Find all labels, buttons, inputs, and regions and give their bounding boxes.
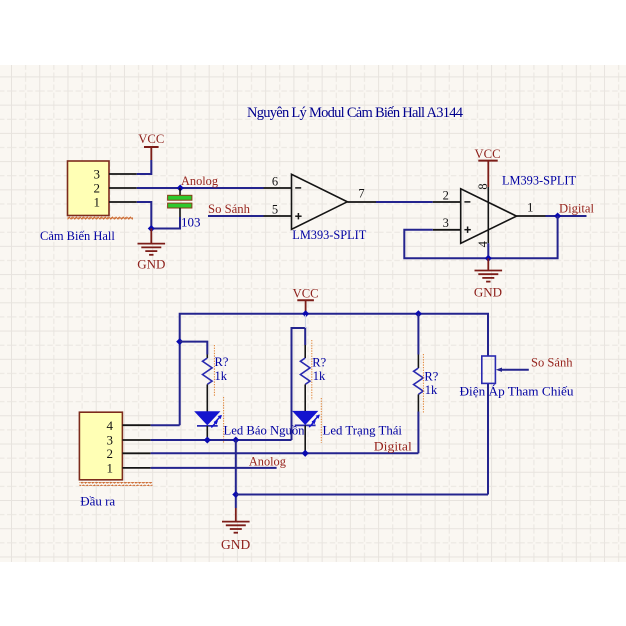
ground symbol GND3 [221,508,250,552]
wire U1B pin4 down to feedback line [487,243,489,258]
U1A pin number 5 [272,202,278,216]
R2 error marker [311,340,313,400]
wire GND drop vertical [235,440,237,508]
P1 pin number 1 [94,195,101,210]
U1B pin number 3 [443,216,449,230]
wire pin4 to rail vertical [151,424,180,426]
junction at GND node [148,225,155,232]
U1A pin 5 stub [264,215,292,217]
VCC power port above U1B [475,146,501,187]
U1A pin 6 stub [264,187,292,189]
P2 error squiggle [79,482,152,486]
U1B pin 4 label (rotated) [476,240,490,247]
P2 pin 2 stub [122,452,150,454]
wire n-bridge from GND line up to R2 [292,328,306,440]
U1A label LM393-SPLIT [292,227,366,242]
resistor R3 [414,355,424,412]
svg-text:2: 2 [107,446,114,461]
VCC rail wire [180,314,488,425]
capacitor C1 plates [168,195,192,208]
resistor R3 top wire [417,314,419,355]
svg-text:R?: R? [424,369,438,383]
R1 value 1k [215,369,228,383]
capacitor C1 value 103 [181,215,201,230]
D1 error marker [223,397,225,443]
svg-text:Led Trạng Thái: Led Trạng Thái [323,423,403,438]
potentiometer wire from rail [487,383,489,494]
svg-text:3: 3 [94,167,101,182]
P2 pin number 1 [107,460,114,475]
connector P2 Dau ra body [79,412,122,480]
U1A pin number 7 [358,186,364,200]
R3 designator R? [424,369,438,383]
svg-text:7: 7 [358,186,364,200]
U1B pin 3 stub [433,229,461,231]
U1B plus sign [464,227,470,233]
svg-text:1: 1 [94,195,101,210]
D2 error marker [320,398,322,443]
svg-text:Cảm Biến Hall: Cảm Biến Hall [40,228,115,243]
schematic sheet background [0,65,626,562]
svg-text:1: 1 [527,200,533,214]
P2 pin number 2 [107,446,114,461]
svg-text:6: 6 [272,174,278,188]
U1B pin 8 label (rotated) [476,183,490,189]
P2 pin 4 stub [122,424,150,426]
R3 bottom wire to Digital line [417,412,419,454]
RV1 label Dien Ap Tham Chieu [460,384,574,399]
U1A pin number 6 [272,174,278,188]
junction GND drop [232,436,239,443]
svg-text:LM393-SPLIT: LM393-SPLIT [292,227,366,242]
svg-text:GND: GND [221,537,250,552]
svg-text:3: 3 [443,216,449,230]
svg-text:LM393-SPLIT: LM393-SPLIT [502,173,576,188]
svg-text:Đầu ra: Đầu ra [80,494,115,509]
junction D2 cathode [302,450,309,457]
R1 designator R? [215,355,229,369]
svg-text:Led Báo Nguồn: Led Báo Nguồn [224,423,305,438]
svg-text:103: 103 [181,215,201,230]
svg-text:1k: 1k [425,383,438,397]
P1 pin 3 stub [109,173,137,175]
potentiometer RV1 body [482,356,496,383]
P2 pin 3 stub [122,439,150,441]
op-amp U1A triangle [292,174,348,229]
wire pin3 GND line [151,439,292,441]
P1 pin 1 stub [109,201,137,203]
wire pin1 Anolog stub [151,467,277,469]
svg-text:Anolog: Anolog [249,454,287,468]
wire U1A out to U1B pin2 [376,201,433,203]
junction at cap top [177,184,184,191]
capacitor C1 top lead [179,188,181,196]
svg-text:Anolog: Anolog [181,174,219,188]
U1B label LM393-SPLIT [502,173,576,188]
svg-text:2: 2 [443,188,449,202]
svg-text:Digital: Digital [374,439,413,453]
RV1 wiper arrow [496,368,529,372]
net label Digital (bottom) [374,439,413,453]
svg-text:So Sánh: So Sánh [531,356,573,370]
capacitor C1 bottom lead [151,208,180,229]
ground symbol GND1 [137,229,165,272]
P1 pin number 2 [94,181,101,196]
P1 pin 2 stub [109,187,137,189]
svg-text:2: 2 [94,181,101,196]
svg-text:Nguyên Lý Modul Cảm Biến Hall: Nguyên Lý Modul Cảm Biến Hall A3144 [247,105,464,121]
junction on feedback line [485,255,492,262]
junction at GND3 node [232,491,239,498]
resistor R2 [300,345,310,411]
junction rail at VCC stub [302,310,309,317]
wire So Sanh net to U1A pin5 [208,215,264,217]
svg-text:R?: R? [312,355,326,369]
LED D2 [293,411,320,453]
P1 error squiggle [68,216,134,220]
title: Nguyen Ly Modul Cam Bien Hall A3144 [247,105,464,121]
svg-text:GND: GND [474,284,502,299]
VCC power port (bottom section) [293,285,319,313]
wire branch to R1 [180,342,208,355]
svg-text:R?: R? [215,355,229,369]
svg-text:1k: 1k [215,369,228,383]
R1 error marker [213,345,215,397]
ground symbol GND2 under U1B [474,258,502,299]
U1B pin number 2 [443,188,449,202]
P1 label Cam Bien Hall [40,228,115,243]
net label Digital [559,201,595,215]
R3 value 1k [425,383,438,397]
LED D1 [195,412,222,440]
svg-text:GND: GND [137,257,165,272]
P2 pin number 4 [107,418,114,433]
net label Anolog (bottom) [249,454,287,468]
U1B pin 1 stub [517,215,546,217]
U1A plus sign [295,213,301,219]
wire pin2 Digital line [151,452,419,454]
feedback wire from Digital node to U1B pin3 [404,216,557,258]
P2 pin 1 stub [122,467,150,469]
svg-text:VCC: VCC [138,131,164,146]
svg-text:VCC: VCC [475,146,501,161]
junction left vertical at R1 branch [176,338,183,345]
U1B power pin vertical [487,187,489,243]
net label So Sanh (right) [531,356,573,370]
R2 value 1k [313,369,326,383]
svg-text:Điện Áp Tham Chiếu: Điện Áp Tham Chiếu [460,384,574,399]
svg-text:8: 8 [476,183,490,189]
D2 label Led Trang Thai [323,423,403,438]
R3 error marker [422,354,424,413]
faint stub rail to bridge [304,315,306,328]
wire GND3 node to potentiometer bottom [236,494,488,496]
VCC power port (top left) [138,131,164,160]
connector P1 Cam Bien Hall body [68,161,110,216]
svg-text:1: 1 [107,460,114,475]
P2 pin number 3 [107,432,114,447]
P2 label Dau ra [80,494,115,509]
resistor R1 [203,355,213,412]
junction Digital node [554,212,561,219]
U1B minus sign [464,201,470,203]
R2 designator R? [312,355,326,369]
P1 pin number 3 [94,167,101,182]
wire Digital net right of U1B [546,215,587,217]
net label So Sanh [208,202,251,216]
net label Anolog [181,174,219,188]
U1B pin 2 stub [433,201,461,203]
svg-text:4: 4 [107,418,114,433]
wire pin1 down to GND node [137,202,152,229]
wire Anolog net (pin2 to U1A pin6) [137,187,264,189]
svg-text:1k: 1k [313,369,326,383]
U1A pin 7 stub [347,201,376,203]
junction rail at R3 [415,310,422,317]
wire pin3 to VCC [137,160,152,174]
svg-text:5: 5 [272,202,278,216]
junction D1 cathode [204,436,211,443]
svg-text:VCC: VCC [293,285,319,300]
U1B pin number 1 [527,200,533,214]
svg-text:So Sánh: So Sánh [208,202,251,216]
U1A minus sign [295,187,301,189]
D1 label Led Bao Nguon [224,423,305,438]
svg-text:Digital: Digital [559,201,595,215]
op-amp U1B triangle [461,189,517,244]
